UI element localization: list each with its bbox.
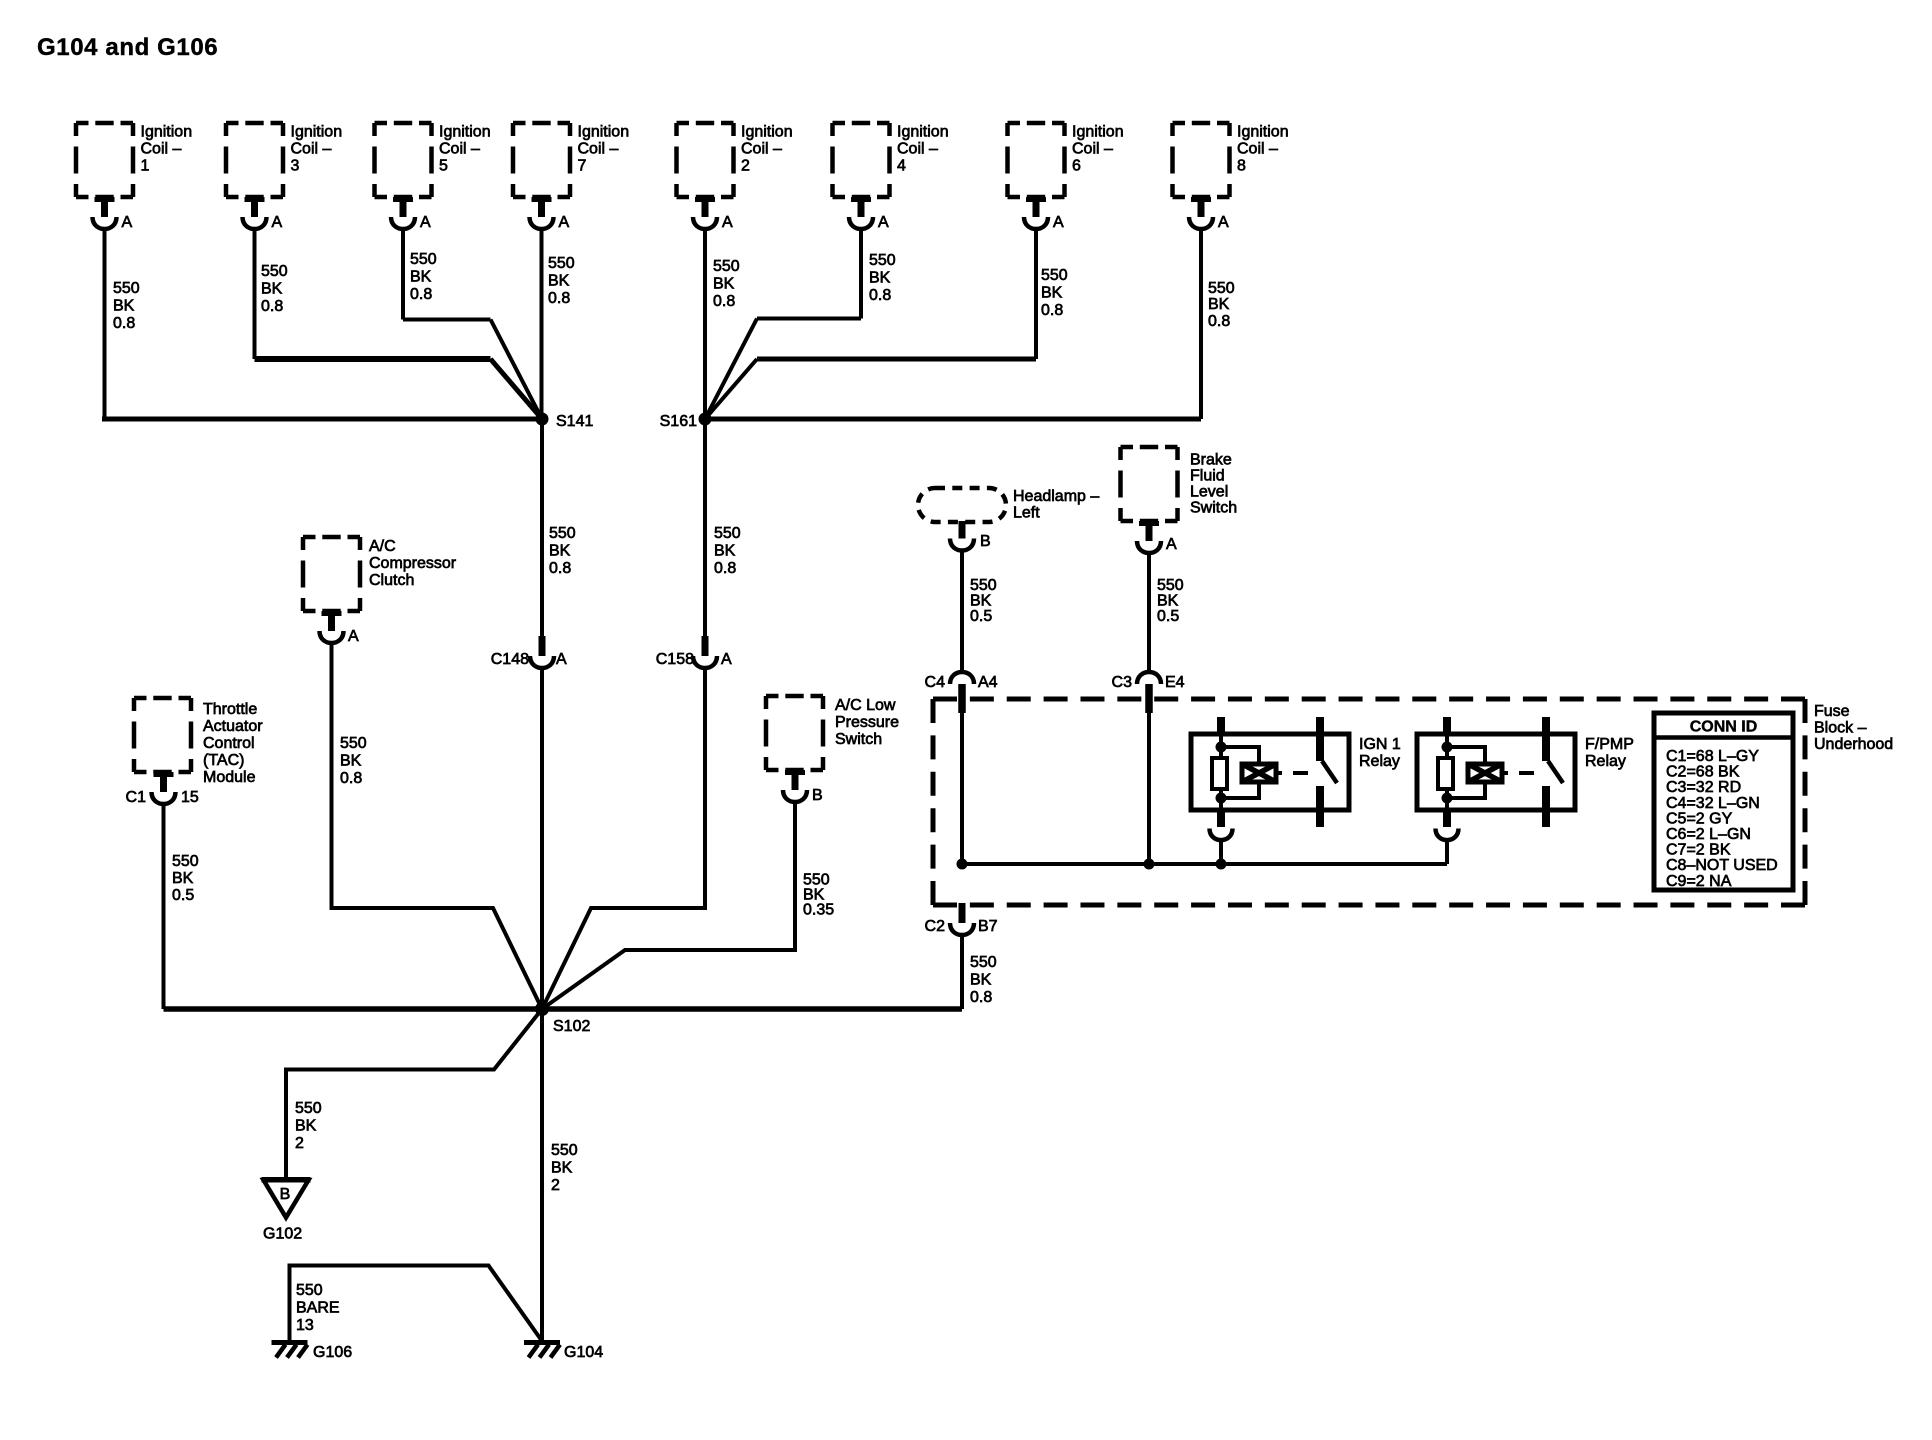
svg-text:550: 550 — [970, 577, 997, 594]
svg-text:BK: BK — [295, 1118, 317, 1135]
svg-text:550: 550 — [1041, 267, 1068, 284]
svg-text:Relay: Relay — [1359, 753, 1400, 770]
svg-text:A: A — [556, 651, 567, 668]
svg-text:CONN ID: CONN ID — [1690, 719, 1758, 736]
svg-text:13: 13 — [296, 1317, 314, 1334]
svg-text:S141: S141 — [556, 413, 593, 430]
svg-text:B: B — [280, 1186, 291, 1203]
svg-text:C1: C1 — [126, 789, 147, 806]
svg-text:BK: BK — [970, 593, 992, 610]
svg-text:0.8: 0.8 — [410, 286, 432, 303]
svg-text:BK: BK — [340, 753, 362, 770]
svg-text:550: 550 — [1208, 280, 1235, 297]
svg-text:6: 6 — [1072, 158, 1081, 175]
svg-text:B7: B7 — [978, 918, 998, 935]
svg-text:550: 550 — [1157, 577, 1184, 594]
svg-text:C2=68 BK: C2=68 BK — [1666, 764, 1740, 781]
svg-text:Coil –: Coil – — [1237, 141, 1278, 158]
svg-text:G104 and G106: G104 and G106 — [37, 34, 218, 61]
svg-text:BK: BK — [410, 269, 432, 286]
svg-text:C2: C2 — [925, 918, 946, 935]
svg-text:Ignition: Ignition — [439, 124, 491, 141]
svg-text:Fuse: Fuse — [1814, 703, 1850, 720]
svg-text:A/C: A/C — [369, 538, 396, 555]
svg-text:BK: BK — [1157, 593, 1179, 610]
svg-text:BK: BK — [869, 270, 891, 287]
svg-text:Coil –: Coil – — [741, 141, 782, 158]
svg-text:0.35: 0.35 — [803, 902, 834, 919]
svg-text:Ignition: Ignition — [1072, 124, 1124, 141]
svg-text:0.8: 0.8 — [714, 560, 736, 577]
svg-text:BK: BK — [548, 273, 570, 290]
svg-text:A: A — [878, 214, 889, 231]
svg-text:Control: Control — [203, 735, 255, 752]
svg-text:550: 550 — [172, 853, 199, 870]
svg-text:Throttle: Throttle — [203, 701, 257, 718]
svg-text:2: 2 — [741, 158, 750, 175]
svg-text:550: 550 — [340, 735, 367, 752]
svg-text:Headlamp –: Headlamp – — [1013, 488, 1099, 505]
svg-text:C5=2 GY: C5=2 GY — [1666, 810, 1733, 827]
svg-text:550: 550 — [714, 525, 741, 542]
svg-text:Block –: Block – — [1814, 720, 1867, 737]
svg-text:Switch: Switch — [1190, 500, 1237, 517]
svg-text:1: 1 — [141, 158, 150, 175]
svg-text:BK: BK — [113, 298, 135, 315]
svg-text:BK: BK — [172, 870, 194, 887]
svg-text:2: 2 — [551, 1177, 560, 1194]
svg-text:B: B — [812, 787, 823, 804]
svg-text:F/PMP: F/PMP — [1585, 736, 1634, 753]
svg-text:550: 550 — [551, 1142, 578, 1159]
svg-text:Switch: Switch — [835, 731, 882, 748]
svg-text:C148: C148 — [491, 651, 529, 668]
svg-text:C3: C3 — [1112, 674, 1133, 691]
svg-text:7: 7 — [578, 158, 587, 175]
svg-text:Coil –: Coil – — [291, 141, 332, 158]
svg-text:Ignition: Ignition — [578, 124, 630, 141]
svg-text:A: A — [420, 214, 431, 231]
svg-text:A: A — [721, 651, 732, 668]
svg-text:BK: BK — [713, 276, 735, 293]
svg-text:0.5: 0.5 — [970, 608, 992, 625]
svg-text:Coil –: Coil – — [439, 141, 480, 158]
svg-text:IGN 1: IGN 1 — [1359, 736, 1401, 753]
svg-text:A: A — [559, 214, 570, 231]
svg-text:S102: S102 — [553, 1018, 590, 1035]
svg-text:Ignition: Ignition — [897, 124, 949, 141]
svg-text:550: 550 — [869, 252, 896, 269]
svg-text:C1=68 L–GY: C1=68 L–GY — [1666, 748, 1759, 765]
svg-text:Underhood: Underhood — [1814, 736, 1893, 753]
svg-text:550: 550 — [113, 280, 140, 297]
svg-text:A: A — [348, 628, 359, 645]
svg-text:BK: BK — [970, 972, 992, 989]
svg-text:Ignition: Ignition — [291, 124, 343, 141]
svg-text:4: 4 — [897, 158, 906, 175]
svg-text:550: 550 — [549, 525, 576, 542]
svg-text:BK: BK — [261, 281, 283, 298]
svg-text:0.5: 0.5 — [1157, 608, 1179, 625]
svg-text:550: 550 — [410, 251, 437, 268]
svg-text:550: 550 — [713, 258, 740, 275]
svg-text:G104: G104 — [564, 1344, 603, 1361]
svg-text:A: A — [272, 214, 283, 231]
svg-text:0.8: 0.8 — [713, 293, 735, 310]
svg-text:BARE: BARE — [296, 1300, 340, 1317]
svg-text:0.8: 0.8 — [113, 315, 135, 332]
svg-text:Pressure: Pressure — [835, 714, 899, 731]
svg-text:0.8: 0.8 — [340, 770, 362, 787]
svg-text:C6=2 L–GN: C6=2 L–GN — [1666, 826, 1751, 843]
svg-text:Clutch: Clutch — [369, 572, 414, 589]
svg-text:Coil –: Coil – — [1072, 141, 1113, 158]
svg-text:Coil –: Coil – — [578, 141, 619, 158]
svg-text:0.8: 0.8 — [1041, 302, 1063, 319]
svg-text:8: 8 — [1237, 158, 1246, 175]
svg-text:BK: BK — [551, 1160, 573, 1177]
svg-text:0.8: 0.8 — [1208, 313, 1230, 330]
svg-text:550: 550 — [295, 1100, 322, 1117]
svg-text:G106: G106 — [313, 1344, 352, 1361]
svg-text:Ignition: Ignition — [741, 124, 793, 141]
svg-text:A: A — [1053, 214, 1064, 231]
svg-text:A4: A4 — [978, 674, 998, 691]
svg-text:A: A — [122, 214, 133, 231]
svg-text:A/C Low: A/C Low — [835, 697, 896, 714]
svg-text:0.5: 0.5 — [172, 887, 194, 904]
svg-text:C7=2 BK: C7=2 BK — [1666, 842, 1731, 859]
svg-text:0.8: 0.8 — [261, 298, 283, 315]
svg-text:Coil –: Coil – — [141, 141, 182, 158]
svg-text:550: 550 — [261, 263, 288, 280]
svg-text:E4: E4 — [1165, 674, 1185, 691]
svg-text:G102: G102 — [263, 1226, 302, 1243]
svg-text:C8–NOT USED: C8–NOT USED — [1666, 857, 1778, 874]
svg-text:15: 15 — [181, 789, 199, 806]
svg-text:C9=2 NA: C9=2 NA — [1666, 873, 1732, 890]
svg-text:Fluid: Fluid — [1190, 468, 1225, 485]
svg-text:Brake: Brake — [1190, 452, 1232, 469]
svg-text:BK: BK — [1208, 296, 1230, 313]
svg-text:5: 5 — [439, 158, 448, 175]
svg-text:BK: BK — [714, 543, 736, 560]
svg-text:(TAC): (TAC) — [203, 752, 244, 769]
svg-text:C4: C4 — [925, 674, 946, 691]
svg-text:550: 550 — [548, 255, 575, 272]
svg-text:A: A — [722, 214, 733, 231]
svg-text:0.8: 0.8 — [548, 290, 570, 307]
svg-text:Ignition: Ignition — [1237, 124, 1289, 141]
svg-text:Left: Left — [1013, 505, 1040, 522]
svg-text:C3=32 RD: C3=32 RD — [1666, 779, 1741, 796]
svg-text:A: A — [1166, 536, 1177, 553]
svg-text:C158: C158 — [656, 651, 694, 668]
svg-text:Ignition: Ignition — [141, 124, 193, 141]
svg-text:550: 550 — [970, 954, 997, 971]
svg-text:Coil –: Coil – — [897, 141, 938, 158]
svg-text:0.8: 0.8 — [869, 287, 891, 304]
svg-text:Level: Level — [1190, 484, 1228, 501]
svg-text:2: 2 — [295, 1135, 304, 1152]
svg-text:0.8: 0.8 — [970, 989, 992, 1006]
svg-text:550: 550 — [296, 1282, 323, 1299]
svg-text:S161: S161 — [660, 413, 697, 430]
svg-text:Relay: Relay — [1585, 753, 1626, 770]
svg-text:BK: BK — [549, 543, 571, 560]
svg-text:C4=32 L–GN: C4=32 L–GN — [1666, 795, 1760, 812]
svg-text:Module: Module — [203, 769, 256, 786]
svg-text:Actuator: Actuator — [203, 718, 263, 735]
svg-text:BK: BK — [1041, 285, 1063, 302]
svg-text:A: A — [1218, 214, 1229, 231]
svg-text:0.8: 0.8 — [549, 560, 571, 577]
svg-text:Compressor: Compressor — [369, 555, 457, 572]
svg-text:B: B — [980, 533, 991, 550]
svg-text:3: 3 — [291, 158, 300, 175]
